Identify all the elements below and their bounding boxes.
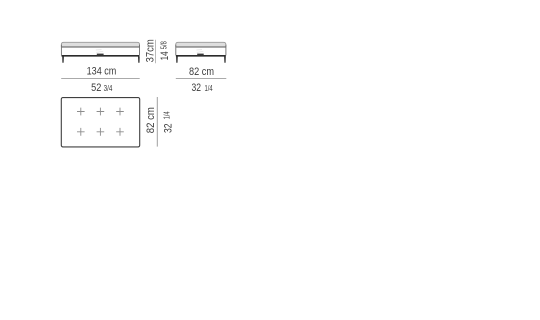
svg-text:134 cm: 134 cm: [87, 65, 117, 77]
tuft button row 2 col 1: [77, 128, 85, 136]
bench side view 82cm: body side edges: [176, 45, 226, 56]
svg-text:14: 14: [159, 51, 171, 60]
bench side view 82cm: cushion seam line: [176, 46, 226, 48]
bench side view 134cm: cushion seam line: [62, 46, 140, 48]
tuft button row 1 col 3: [116, 108, 124, 116]
tuft button row 1 col 2: [97, 108, 105, 116]
svg-text:82 cm: 82 cm: [145, 107, 157, 133]
bench side view 134cm: body side edges: [61, 45, 139, 56]
svg-text:52: 52: [91, 82, 101, 94]
bench side view 134cm: faint fold mark: [96, 50, 103, 53]
bench side view 134cm: right leg: [138, 57, 140, 63]
tuft button row 2 col 2: [97, 128, 105, 136]
svg-text:5/8: 5/8: [159, 41, 168, 49]
bench side view 82cm: right leg: [224, 57, 226, 63]
tuft button row 1 col 1: [77, 108, 85, 116]
bench side view 134cm: center support tab: [97, 54, 104, 56]
bench side view 134cm: cushion: [61, 42, 139, 47]
bench side view 134cm: left leg: [62, 57, 64, 63]
vertical dimension line for height 37cm: [155, 40, 157, 63]
vertical dimension line for depth 82cm: [156, 97, 158, 147]
svg-text:1/4: 1/4: [162, 111, 171, 119]
svg-text:3/4: 3/4: [104, 84, 113, 93]
svg-text:1/4: 1/4: [205, 84, 214, 93]
bench side view 82cm: faint fold mark: [196, 50, 203, 53]
svg-text:82 cm: 82 cm: [189, 66, 214, 78]
svg-text:37cm: 37cm: [145, 39, 157, 62]
bench side view 82cm: left leg: [176, 57, 178, 63]
bench side view 134cm: base bar: [62, 55, 140, 57]
dimension rule under 134 cm: [61, 78, 140, 80]
bench side view 82cm: base bar: [176, 55, 226, 57]
svg-text:32: 32: [162, 124, 174, 134]
bench side view 82cm: cushion: [176, 42, 226, 47]
bench side view 82cm: center support tab: [197, 54, 204, 56]
top view rectangle 134x82: [61, 98, 139, 147]
dimension rule under 82 cm: [176, 78, 227, 80]
svg-text:32: 32: [192, 82, 202, 94]
tuft button row 2 col 3: [116, 128, 124, 136]
